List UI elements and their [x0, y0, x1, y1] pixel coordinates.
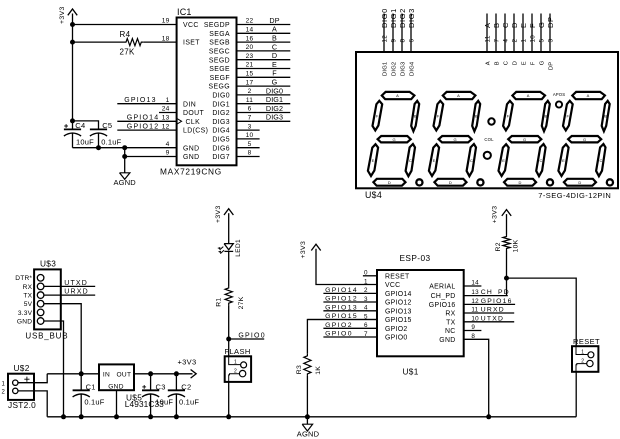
- capacitor C1 0.1uF: [73, 374, 105, 417]
- svg-text:F: F: [531, 61, 537, 65]
- svg-text:GPIO14: GPIO14: [325, 287, 358, 294]
- junction ground bus x=176.4: [174, 414, 179, 419]
- wire OUT to +3V3 arrow: [134, 373, 193, 375]
- svg-text:D: D: [513, 61, 519, 65]
- svg-text:+3V3: +3V3: [491, 206, 498, 224]
- svg-text:1: 1: [234, 360, 237, 366]
- wire net GPIO14 (ESP): [323, 292, 377, 294]
- wire CH_PD node to RESET button: [507, 278, 577, 346]
- svg-text:SEGD: SEGD: [209, 57, 230, 64]
- svg-text:C1: C1: [86, 382, 96, 391]
- svg-text:10uF: 10uF: [76, 137, 94, 146]
- svg-text:LED1: LED1: [235, 239, 242, 257]
- pin stub DOUT: [159, 112, 177, 114]
- svg-text:10K: 10K: [512, 239, 519, 252]
- colon dot lower (COL): [484, 152, 491, 159]
- svg-text:+3V3: +3V3: [300, 241, 307, 259]
- pin names IC1 left: [183, 22, 208, 161]
- svg-text:DIG0: DIG0: [266, 86, 283, 95]
- svg-text:2: 2: [512, 39, 519, 43]
- svg-text:DP: DP: [546, 16, 555, 28]
- wire FLASH to ground bus: [228, 382, 230, 417]
- svg-text:19: 19: [162, 18, 170, 25]
- wire GND4-GND9 link: [124, 148, 126, 173]
- 7-segment digit 3: [499, 92, 554, 186]
- junction C4 branch: [70, 118, 75, 123]
- pin names U$1 left: [385, 273, 412, 341]
- resistor R4: [120, 30, 144, 56]
- svg-text:TX: TX: [446, 319, 456, 326]
- svg-text:VCC: VCC: [183, 22, 199, 29]
- 7-segment digit 4: [558, 92, 613, 186]
- capacitor C2 0.1uF: [168, 374, 200, 417]
- svg-text:GPIO2: GPIO2: [385, 326, 408, 333]
- svg-text:ESP-03: ESP-03: [400, 253, 431, 263]
- svg-text:1: 1: [166, 97, 170, 104]
- svg-text:CH_PD: CH_PD: [431, 293, 456, 300]
- svg-text:GPIO13: GPIO13: [124, 97, 157, 104]
- svg-text:G: G: [537, 22, 546, 28]
- svg-text:+3V3: +3V3: [59, 6, 66, 24]
- wire net DP from IC1 pin 22: [237, 24, 291, 26]
- wire net A to display: [486, 14, 488, 53]
- wire net G to display: [540, 14, 542, 53]
- wire net GPIO15 (ESP): [307, 319, 377, 321]
- display U$4 7-SEG-4DIG-12PIN body: [356, 52, 618, 200]
- wire net DIG2 from IC1 pin 6: [237, 112, 291, 114]
- wire net D to display: [513, 14, 515, 53]
- svg-text:27K: 27K: [238, 296, 245, 309]
- svg-text:27K: 27K: [120, 47, 135, 56]
- svg-text:B: B: [495, 61, 501, 65]
- svg-text:C: C: [504, 61, 510, 65]
- svg-text:U$3: U$3: [40, 259, 56, 269]
- svg-text:OUT: OUT: [116, 371, 131, 378]
- wire net C to display: [504, 14, 506, 53]
- svg-text:A: A: [483, 22, 492, 28]
- svg-text:E: E: [272, 60, 277, 69]
- svg-text:16: 16: [246, 35, 254, 42]
- svg-text:SEGB: SEGB: [209, 40, 230, 47]
- svg-text:APOS: APOS: [553, 92, 565, 97]
- svg-text:+3V3: +3V3: [215, 205, 222, 223]
- wire GND pin4: [73, 147, 177, 149]
- svg-text:0.1uF: 0.1uF: [101, 137, 121, 146]
- svg-text:23: 23: [246, 53, 254, 60]
- svg-text:GPIO12: GPIO12: [127, 124, 160, 131]
- wire net GPIO16: [464, 303, 515, 305]
- wire +3V3 to R2: [506, 214, 508, 234]
- svg-text:GND: GND: [17, 318, 32, 325]
- svg-text:IN: IN: [103, 371, 110, 378]
- svg-text:GPIO0: GPIO0: [385, 335, 408, 342]
- svg-text:UTXD: UTXD: [64, 280, 88, 287]
- svg-text:GPIO16: GPIO16: [481, 298, 513, 305]
- svg-text:DIG2: DIG2: [398, 8, 407, 28]
- pin stub IC1 pin 5: [237, 147, 260, 149]
- junction ground bus x=116.5: [114, 414, 119, 419]
- capacitor C3 10uF: [142, 374, 173, 417]
- svg-text:1: 1: [581, 349, 584, 355]
- wire net D from IC1 pin 23: [237, 59, 291, 61]
- wire VCC net: [73, 24, 177, 26]
- svg-text:7: 7: [248, 115, 252, 122]
- svg-text:15: 15: [246, 71, 254, 78]
- contact 2 of FLASH: [229, 369, 246, 382]
- svg-text:8: 8: [248, 150, 252, 157]
- resistor R2: [495, 235, 519, 253]
- svg-text:DIG1: DIG1: [212, 101, 230, 108]
- wire +3V3 to LED: [228, 213, 230, 243]
- svg-text:3: 3: [248, 123, 252, 130]
- svg-text:11: 11: [246, 97, 253, 104]
- colon dot upper (COL): [488, 118, 494, 124]
- resistor R3: [296, 354, 322, 376]
- pin stub IC1 pin 3: [237, 129, 260, 131]
- svg-text:VCC: VCC: [385, 282, 400, 289]
- wire net DIG0 to display: [383, 14, 385, 53]
- net GPIO13 wire (DIN): [117, 103, 176, 105]
- svg-text:5V: 5V: [24, 301, 33, 308]
- regulator U$5 L4931C33 body: [99, 364, 164, 409]
- svg-text:4: 4: [166, 141, 170, 148]
- svg-text:3.3V: 3.3V: [18, 310, 33, 317]
- svg-text:C5: C5: [102, 121, 112, 130]
- svg-text:MAX7219CNG: MAX7219CNG: [160, 167, 222, 177]
- net GPIO14 wire (CLK): [117, 120, 176, 122]
- junction ground bus x=81.2: [79, 414, 84, 419]
- svg-text:G: G: [272, 78, 278, 87]
- junction GPIO0 node: [226, 337, 231, 342]
- svg-text:F: F: [528, 23, 537, 28]
- connector U$2 JST2.0 body: [8, 363, 36, 410]
- svg-text:20: 20: [246, 44, 254, 51]
- svg-text:9: 9: [391, 39, 398, 43]
- junction CH_PD/R2/RESET: [504, 276, 509, 281]
- wire R3 to ground bus: [306, 376, 308, 417]
- svg-text:D: D: [510, 22, 519, 28]
- svg-text:DIG0: DIG0: [212, 93, 230, 100]
- svg-text:GPIO12: GPIO12: [325, 296, 358, 303]
- svg-text:17: 17: [246, 79, 254, 86]
- contact 2 of RESET: [576, 358, 593, 371]
- svg-text:CH_PD: CH_PD: [481, 289, 510, 296]
- wire net DIG3 from IC1 pin 7: [237, 120, 291, 122]
- svg-text:3: 3: [548, 39, 555, 43]
- pin 3.3V of U$3: [37, 309, 44, 316]
- svg-text:DIG2: DIG2: [266, 104, 283, 113]
- wire VCC to +3V3: [316, 249, 377, 285]
- svg-text:7: 7: [494, 39, 501, 43]
- svg-text:DIG3: DIG3: [401, 62, 407, 76]
- wire net GPIO13 (ESP): [323, 310, 377, 312]
- power +3V3 (LED anode): [215, 205, 234, 223]
- resistor R1: [215, 286, 244, 309]
- svg-text:GPIO12: GPIO12: [385, 300, 412, 307]
- svg-text:DIG1: DIG1: [389, 8, 398, 28]
- wire net A from IC1 pin 14: [237, 32, 291, 34]
- pin 2 of U$2: [2, 388, 19, 395]
- svg-text:13: 13: [162, 115, 170, 122]
- wire GND pin9: [125, 156, 177, 158]
- wire R2 to CH_PD node: [506, 251, 508, 296]
- junction +3V3/ISET: [70, 40, 75, 45]
- svg-text:A: A: [486, 61, 492, 65]
- svg-text:GPIO0: GPIO0: [238, 332, 265, 339]
- svg-text:A: A: [272, 25, 277, 34]
- svg-text:5: 5: [539, 39, 546, 43]
- wire net UTXD (ESP TX): [464, 321, 515, 323]
- wire net DIG2 to display: [401, 14, 403, 53]
- junction +3V3/VCC: [70, 22, 75, 27]
- svg-text:DIG4: DIG4: [410, 61, 416, 76]
- wire net B from IC1 pin 16: [237, 41, 291, 43]
- svg-text:DIG1: DIG1: [383, 62, 389, 76]
- svg-text:GND: GND: [183, 154, 200, 161]
- ground AGND (analog, near IC1): [113, 173, 136, 187]
- svg-text:GPIO14: GPIO14: [127, 115, 160, 122]
- svg-text:JST2.0: JST2.0: [8, 400, 36, 410]
- svg-text:10uF: 10uF: [155, 398, 173, 407]
- junction ground bus x=63.5: [61, 414, 66, 419]
- svg-text:DIG5: DIG5: [212, 137, 230, 144]
- svg-text:GPIO2: GPIO2: [325, 322, 353, 329]
- capacitor C4 10uF: [64, 121, 94, 148]
- svg-text:12: 12: [162, 123, 170, 130]
- svg-text:DP: DP: [549, 62, 555, 70]
- svg-text:SEGDP: SEGDP: [204, 22, 230, 29]
- svg-text:GND: GND: [439, 337, 455, 344]
- svg-text:SEGC: SEGC: [209, 49, 230, 56]
- svg-text:CLK: CLK: [186, 119, 201, 126]
- svg-text:TX: TX: [23, 293, 32, 300]
- wire C4-C5 branch: [73, 121, 99, 129]
- svg-text:RESET: RESET: [385, 273, 410, 280]
- svg-text:0.1uF: 0.1uF: [179, 398, 199, 407]
- svg-text:UTXD: UTXD: [481, 315, 504, 322]
- junction ground bus x=488.7: [486, 414, 491, 419]
- svg-text:DIG4: DIG4: [212, 128, 230, 135]
- ground AGND (main): [297, 417, 320, 439]
- capacitor C5 0.1uF: [90, 121, 122, 148]
- svg-text:F: F: [272, 69, 277, 78]
- svg-text:GND: GND: [108, 384, 124, 391]
- pin DTR* of U$3: [37, 275, 44, 282]
- power +3V3 (R2 pullup): [491, 206, 511, 224]
- wire net UTXD from RX: [44, 285, 95, 287]
- svg-text:DIG6: DIG6: [212, 145, 230, 152]
- svg-text:SEGA: SEGA: [209, 31, 230, 38]
- svg-text:RX: RX: [23, 284, 33, 291]
- wire net F from IC1 pin 15: [237, 76, 291, 78]
- svg-text:5: 5: [248, 141, 252, 148]
- pin GND of U$3: [37, 318, 44, 325]
- svg-text:AGND: AGND: [113, 178, 136, 187]
- svg-text:E: E: [522, 61, 528, 65]
- pin stub IC1 pin 10: [237, 138, 260, 140]
- svg-text:DIG0: DIG0: [380, 8, 389, 28]
- wire GPIO15 to R3: [307, 320, 377, 354]
- pin stub NC: [464, 330, 482, 332]
- svg-text:SEGF: SEGF: [210, 75, 230, 82]
- svg-text:22: 22: [246, 18, 254, 25]
- svg-text:GPIO14: GPIO14: [385, 291, 412, 298]
- svg-text:URXD: URXD: [481, 307, 505, 314]
- svg-text:AGND: AGND: [297, 430, 320, 439]
- svg-text:2: 2: [248, 88, 252, 95]
- svg-text:USB_BUB: USB_BUB: [25, 332, 68, 341]
- svg-text:FLASH: FLASH: [225, 347, 251, 356]
- wire ISET left: [73, 41, 125, 43]
- svg-text:C3: C3: [156, 382, 166, 391]
- wire net DIG1 from IC1 pin 11: [237, 103, 291, 105]
- svg-text:RESET: RESET: [573, 337, 600, 346]
- svg-text:C: C: [272, 42, 277, 51]
- pin numbers U$1 right: [471, 280, 479, 340]
- clock symbol CLK pin: [177, 118, 182, 124]
- wire LED to R1: [228, 251, 230, 286]
- pin 1 (+) of U$2: [2, 377, 30, 388]
- svg-text:6: 6: [248, 106, 252, 113]
- svg-text:C: C: [501, 22, 510, 28]
- wire GND of U$3 to ground bus: [44, 321, 64, 417]
- junction OUT/C2: [174, 371, 179, 376]
- svg-text:ISET: ISET: [183, 40, 200, 47]
- svg-text:R1: R1: [215, 298, 222, 307]
- wire net URXD (ESP RX): [464, 312, 515, 314]
- wire R1 to GPIO0 node: [228, 305, 230, 339]
- net GPIO12 wire (LD/CS): [117, 129, 176, 131]
- svg-text:U$2: U$2: [14, 363, 30, 373]
- svg-text:R2: R2: [495, 242, 502, 251]
- wire +5V input to regulator IN: [47, 373, 99, 375]
- wire R4 to ISET pin: [143, 41, 176, 43]
- op IC1 MAX7219CNG body: [160, 7, 237, 176]
- svg-text:DIG3: DIG3: [266, 113, 283, 122]
- svg-text:GND: GND: [183, 145, 200, 152]
- pin RX of U$3: [37, 283, 44, 290]
- wire net GPIO12 (ESP): [323, 301, 377, 303]
- svg-text:+3V3: +3V3: [178, 358, 197, 367]
- wire net B to display: [495, 14, 497, 53]
- wire regulator GND to bus: [116, 390, 118, 417]
- junction C5/GND wire: [96, 145, 101, 150]
- svg-text:1K: 1K: [315, 366, 322, 375]
- svg-text:G: G: [540, 60, 546, 65]
- svg-text:GPIO16: GPIO16: [429, 302, 456, 309]
- svg-text:14: 14: [246, 27, 254, 34]
- svg-text:2: 2: [581, 358, 584, 364]
- pin stub AERIAL: [464, 285, 482, 287]
- svg-text:GPIO15: GPIO15: [385, 317, 412, 324]
- wire ESP GND to ground bus: [464, 339, 489, 417]
- wire ground bus: [47, 416, 576, 418]
- svg-text:10: 10: [530, 35, 537, 43]
- 7-segment digit 1: [368, 92, 423, 186]
- wire net DIG3 to display: [410, 14, 412, 53]
- pin names IC1 right: [204, 22, 230, 161]
- svg-text:COL: COL: [484, 137, 494, 142]
- connector U$3 USB_BUB body: [25, 259, 68, 341]
- wire net CH_PD: [464, 295, 508, 297]
- power +3V3 (regulator output): [178, 358, 197, 378]
- svg-text:B: B: [492, 22, 501, 28]
- apostrophe dot APOS: [556, 101, 562, 107]
- pin names U$1 right: [429, 284, 456, 344]
- svg-text:GPIO13: GPIO13: [385, 308, 412, 315]
- wire 5V to regulator input: [44, 304, 81, 374]
- wire net DIG1 to display: [392, 14, 394, 53]
- wire net DIG0 from IC1 pin 2: [237, 94, 291, 96]
- svg-text:RX: RX: [445, 311, 455, 318]
- pushbutton RESET body: [572, 337, 600, 372]
- svg-text:DIG7: DIG7: [212, 154, 230, 161]
- svg-text:IC1: IC1: [177, 7, 192, 17]
- junction GND9 vertical: [122, 154, 127, 159]
- svg-text:GPIO13: GPIO13: [325, 304, 358, 311]
- svg-text:8: 8: [400, 39, 407, 43]
- wire net GPIO0 stub: [229, 338, 265, 340]
- svg-text:U$4: U$4: [365, 190, 382, 200]
- svg-text:DIG2: DIG2: [212, 110, 230, 117]
- wire GPIO0 node to FLASH: [228, 339, 230, 356]
- wire net URXD from TX: [44, 294, 95, 296]
- junction ground bus x=228.7: [226, 414, 231, 419]
- wire net E from IC1 pin 21: [237, 68, 291, 70]
- svg-text:7-SEG-4DIG-12PIN: 7-SEG-4DIG-12PIN: [538, 191, 611, 200]
- wire U$2 pin1 to +5V rail: [18, 374, 47, 383]
- svg-text:DTR*: DTR*: [15, 275, 32, 282]
- pin TX of U$3: [37, 292, 44, 299]
- wire net DP to display: [549, 14, 551, 53]
- junction 5V/C1/IN: [79, 371, 84, 376]
- svg-text:D: D: [272, 51, 277, 60]
- wire U$2 pin2 to ground bus: [18, 391, 47, 417]
- svg-text:1: 1: [521, 39, 528, 43]
- svg-text:U$1: U$1: [403, 367, 419, 377]
- svg-text:11: 11: [485, 35, 492, 42]
- power +3V3 (MAX7219 supply): [59, 6, 77, 121]
- svg-text:0.1uF: 0.1uF: [84, 398, 104, 407]
- pin stub IC1 pin 8: [237, 156, 260, 158]
- contact 1 of RESET: [576, 346, 594, 358]
- wire net GPIO2 (ESP): [323, 327, 377, 329]
- junction ground bus x=150.6: [148, 414, 153, 419]
- contact 1 of FLASH: [229, 356, 247, 368]
- svg-text:10: 10: [246, 132, 254, 139]
- svg-text:URXD: URXD: [64, 289, 89, 296]
- pin numbers IC1 left: [162, 18, 170, 157]
- svg-text:2: 2: [234, 369, 237, 375]
- svg-text:E: E: [519, 22, 528, 28]
- svg-text:NC: NC: [445, 328, 456, 335]
- junction ground bus x=307.4: [305, 414, 310, 419]
- svg-text:6: 6: [409, 39, 416, 43]
- pin numbers U$1 left: [364, 270, 368, 338]
- power +3V3 (ESP VCC): [300, 241, 321, 259]
- svg-text:DIG1: DIG1: [266, 95, 283, 104]
- svg-text:B: B: [272, 34, 277, 43]
- svg-text:C2: C2: [181, 382, 191, 391]
- wire net GPIO0 (ESP): [323, 336, 377, 338]
- svg-text:R3: R3: [296, 365, 303, 374]
- svg-text:24: 24: [162, 106, 170, 113]
- pin 5V of U$3: [37, 300, 44, 307]
- svg-text:4: 4: [503, 39, 510, 43]
- pin stub RESET: [363, 275, 377, 277]
- svg-text:GPIO0: GPIO0: [325, 331, 353, 338]
- svg-text:DIN: DIN: [183, 101, 196, 108]
